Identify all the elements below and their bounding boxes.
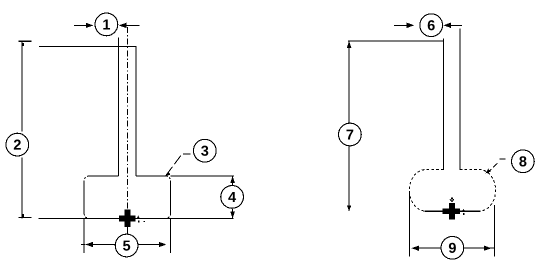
callout circle 8 [512,150,535,173]
dim9 right arrowhead [484,246,492,251]
base top edge left fig1 [89,175,119,177]
dim4 bottom arrowhead [230,211,235,218]
cross fig1 vertical bar [125,210,131,228]
dots right of cross fig2 [463,213,465,215]
callout circle 5 [115,234,138,257]
label 2 [14,140,21,150]
dim1 right line [127,24,140,26]
dim9 left line [419,247,442,249]
dim5 left line [92,244,116,246]
callout circle 6 [420,14,443,37]
cross fig1 horizontal bar [119,216,136,222]
dim9 left extension [409,192,411,256]
dim7 top arrowhead [347,41,352,48]
label 5 [123,241,130,251]
callout circle 4 [221,186,244,209]
dim5 right line [139,244,160,246]
dim4 lower stub [232,209,234,219]
stem left edge fig2 [443,38,445,170]
dim7 bottom arrowhead [347,206,351,212]
bottom dimension line fig1 [38,217,233,219]
stem right edge fig1 [135,46,137,176]
base top-right corner arc [166,176,171,181]
centerline dash above cross fig2 [450,199,454,201]
leader 3 [166,156,181,176]
callout circle 7 [339,123,362,146]
label 8 [519,156,526,166]
centerline fig1 [126,27,128,210]
cross fig2 vertical bar [449,203,455,220]
tick right of cross fig1 [137,217,139,219]
dots right of cross fig1 [138,220,140,222]
cross fig2 horizontal bar [443,209,461,215]
stem left edge fig1 [118,38,120,177]
dim9 right line [464,247,494,249]
base right edge fig1 [170,181,172,214]
top extension line fig2 [348,40,444,42]
dim6 left arrowhead [407,23,415,28]
dim2 bottom nub [23,214,25,217]
dim5 right arrowhead [159,242,167,247]
leader 3 landing dash [183,153,191,155]
leader 8 arrow [486,169,491,174]
dim1 left line [74,24,88,26]
top extension line fig1 [39,45,137,47]
dim6 left line [394,24,407,26]
tick right of cross fig2 [462,210,464,212]
dim5 line stub left of extension [81,244,85,246]
dim9 left arrowhead [412,246,420,251]
dim7 upper line [348,41,350,124]
label 4 [228,192,236,202]
callout circle 1 [95,13,118,36]
base top edge right fig1 [136,175,166,177]
label 1 [103,19,110,29]
callout circle 2 [6,133,29,156]
stem right edge fig2 [459,29,461,170]
leader 8 [487,162,499,173]
dim9 right extension [494,205,496,256]
centerline dot above cross fig2 [451,198,453,200]
dim6 right line [451,24,462,26]
label 6 [428,20,435,30]
dim2 upper line [21,41,23,131]
dim5 left arrowhead [85,242,93,247]
base bottom-left corner arc [84,214,89,219]
dim5 left extension [83,218,85,253]
dim7 lower line [348,146,350,211]
base left edge fig1 [83,181,85,214]
body outline fig2 top-left [409,170,443,212]
dim2 bottom tick [19,216,32,218]
body outline fig2 right half [460,170,496,212]
dim1 left arrowhead [86,23,94,28]
dim2 top tick [19,40,32,42]
base top-left corner arc [84,176,89,181]
dim6 right arrowhead [443,23,451,28]
leader 8 horizontal dash [499,158,505,160]
label 7 [346,130,353,140]
body bottom solid segment fig2 [425,210,481,212]
callout circle 3 [193,139,216,162]
dim4 top arrowhead [230,176,235,183]
dim2 top nub [23,43,25,46]
dim1 right arrowhead [119,23,127,28]
label 3 [201,146,208,156]
base top extension to dim4 [171,175,234,177]
base bottom-right corner arc [166,214,171,219]
leader 3 arrow [165,172,170,177]
dim2 lower line [21,158,23,219]
label 9 [449,243,456,253]
centerline fig1 below cross [126,227,128,234]
callout circle 9 [441,236,464,259]
dim4 upper stub [232,176,234,185]
dim5 right extension [170,218,172,253]
